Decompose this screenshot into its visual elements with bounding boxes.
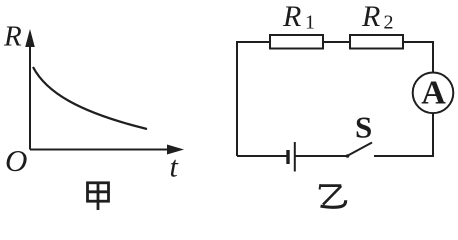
svg-text:R: R [3,21,22,53]
svg-text:t: t [170,151,179,184]
svg-text:S: S [355,110,372,145]
svg-text:O: O [5,143,27,178]
svg-text:2: 2 [384,12,394,34]
svg-text:R: R [282,0,301,33]
svg-text:R: R [361,0,380,33]
svg-text:A: A [421,75,446,112]
svg-text:1: 1 [305,12,315,34]
